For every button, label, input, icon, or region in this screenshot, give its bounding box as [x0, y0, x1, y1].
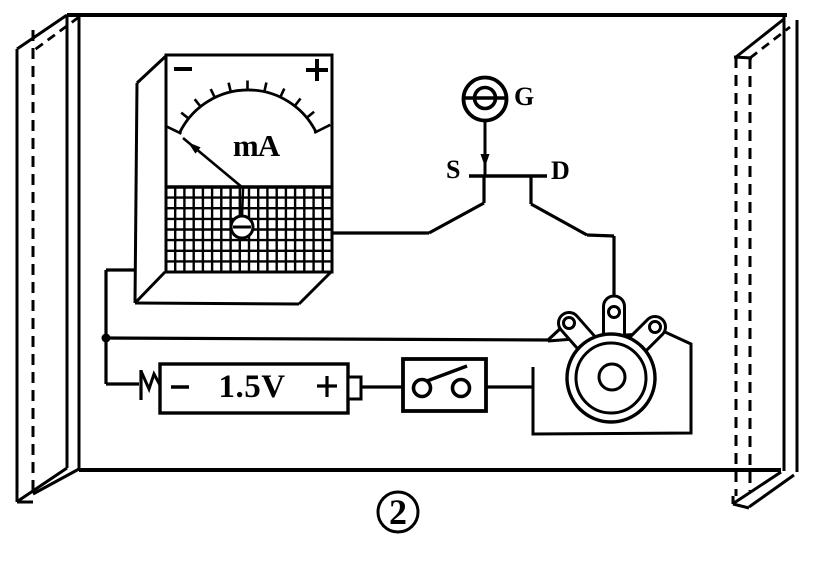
svg-text:2: 2 [389, 492, 407, 532]
svg-text:D: D [551, 156, 570, 185]
rheostat right lug [618, 312, 670, 364]
meter grid section [166, 187, 332, 272]
svg-text:S: S [446, 155, 460, 184]
battery 1.5V [160, 364, 361, 413]
rheostat dial [567, 334, 655, 422]
wire meter-plus to transistor S [332, 176, 484, 233]
rheostat mounting plate [533, 332, 691, 434]
wire junction to rheostat left lug [106, 327, 562, 340]
meter needle [183, 138, 243, 216]
gate lead wire with arrow [481, 121, 490, 176]
svg-text:1.5V: 1.5V [218, 369, 285, 405]
node junction [102, 334, 111, 343]
right post [733, 19, 794, 508]
meter plus mark [306, 59, 328, 81]
spring contact at battery minus [141, 370, 161, 400]
figure number 2 (circled) [378, 492, 418, 532]
transistor bar [469, 174, 547, 177]
rheostat left lug [554, 308, 604, 361]
milliammeter body [135, 55, 332, 304]
wire transistor D to rheostat center lug [531, 177, 614, 298]
meter screw [231, 216, 253, 238]
meter scale arc [165, 81, 330, 134]
wire switch to rheostat [486, 385, 534, 388]
meter minus mark [174, 67, 192, 71]
left post [17, 15, 79, 502]
source lead below bar [483, 176, 486, 203]
rheostat center lug [604, 296, 625, 348]
wire junction to battery-minus spring [106, 337, 139, 384]
svg-text:mA: mA [233, 128, 281, 163]
transistor gate terminal G [462, 78, 508, 121]
wire battery-plus to switch [361, 385, 403, 388]
main panel [67, 15, 797, 472]
switch S [403, 359, 486, 411]
svg-text:G: G [514, 82, 534, 111]
wire meter-minus to junction [106, 270, 135, 339]
